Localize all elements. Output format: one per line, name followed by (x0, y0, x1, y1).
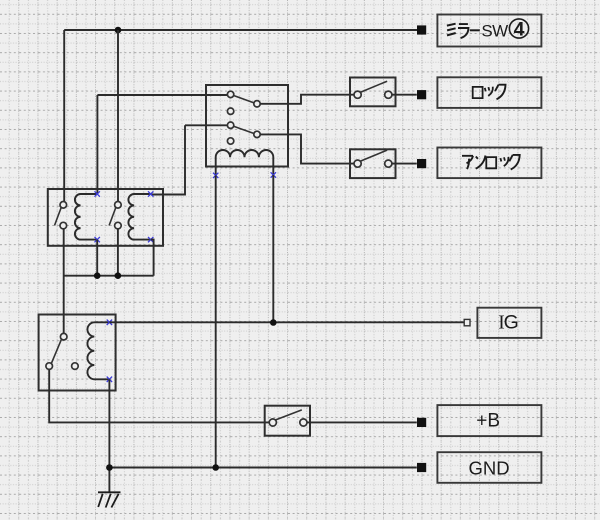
wire: SW1 to lock terminal (392, 94, 417, 96)
switch SW3 contacts and blade (269, 410, 307, 426)
wire: drop to relay K2 common (117, 30, 119, 202)
pin marker X K1 coil top (95, 191, 100, 196)
ground symbol (98, 492, 121, 507)
junction dot bottom rail right (115, 272, 122, 279)
label text: unlock (katakana a-n-ro-tsu-ku) (462, 155, 520, 170)
terminal square: lock (417, 90, 426, 99)
pin marker X U1 coil right (271, 172, 276, 177)
wire: K1 coil top to relay U1 pole1 (97, 95, 227, 194)
relay U1 pole2 contacts and blade (227, 122, 260, 144)
label box: IG (477, 308, 541, 338)
switch SW3 (+B) box (265, 406, 310, 436)
pin marker X K2 coil bottom (148, 237, 153, 242)
switch SW1 contacts and blade (354, 81, 392, 98)
terminal square: unlock (417, 159, 426, 168)
svg-text:+B: +B (476, 411, 500, 432)
svg-text:GND: GND (468, 457, 509, 478)
switch SW2 (unlock) box (350, 149, 396, 178)
wire: K4 throw down to +B line (49, 370, 269, 423)
svg-text:G: G (504, 312, 519, 334)
wire: top bus horizontal (64, 29, 417, 31)
label box: lock (437, 77, 541, 108)
label text: mirror SW4 (katakana mi-ra-dash + SW + circled 4) (447, 19, 529, 41)
pin marker X K1 coil bottom (95, 237, 100, 242)
relay K2 contacts and blade (109, 202, 121, 229)
junction dot GND at U1 coil drop (212, 464, 219, 471)
relay K4 coil (87, 322, 109, 379)
pin marker X K2 coil top (148, 191, 153, 196)
wire: K2 coil top to relay U1 pole2 (151, 125, 227, 194)
pin marker X K4 coil bottom (107, 377, 112, 382)
label text: IG (498, 312, 519, 334)
relay K1 coil (75, 194, 97, 240)
switch SW2 contacts and blade (354, 150, 392, 167)
wire: U1 coil right down to IG line (272, 175, 274, 323)
junction dot top bus (115, 27, 122, 34)
wire: K1 coil bottom drop (96, 240, 98, 276)
terminal square: GND (417, 463, 426, 472)
switch SW1 (lock) box (350, 78, 396, 107)
svg-text:4: 4 (514, 19, 525, 41)
relay U1 pole1 contacts and blade (227, 91, 260, 114)
wire: SW3 to +B terminal (307, 421, 417, 423)
junction dot IG line (270, 319, 277, 326)
wire: GND line (109, 467, 416, 469)
relay K4 contacts and blade (46, 333, 78, 369)
wire: U1 pole2 throw to unlock switch (260, 134, 354, 163)
label box: mirror SW4 (437, 15, 541, 47)
pin marker X U1 coil left (213, 173, 218, 178)
terminal square: mirror SW (417, 25, 426, 34)
terminal connector: IG (open square) (464, 319, 470, 325)
label box: +B (437, 405, 541, 436)
relay K2 coil (128, 194, 150, 240)
label text: lock (katakana ro-tsu-ku) (473, 85, 506, 100)
wire: K2 coil bottom drop (151, 240, 154, 276)
wire: K2 switch drop (117, 229, 119, 276)
relay box K1/K2 (48, 189, 163, 246)
wire: U1 pole1 throw to lock switch (260, 95, 354, 104)
relay U1 coil (216, 150, 274, 175)
relay K4 box (39, 315, 116, 391)
terminal square: +B (417, 418, 426, 427)
label box: GND (437, 452, 541, 483)
svg-text:SW: SW (481, 21, 508, 40)
junction dot bottom rail left (94, 272, 101, 279)
wire: K1 switch to bottom rail and to relay K4 (64, 229, 154, 333)
pin marker X K4 coil top (107, 320, 112, 325)
label box: unlock (437, 148, 541, 179)
wire: SW2 to unlock terminal (392, 163, 417, 165)
relay K1 contacts and blade (55, 202, 67, 229)
wire: left drop to relay K1 common (63, 30, 65, 202)
wire: K4 coil bottom down to ground (108, 379, 110, 492)
relay U1 box (206, 85, 288, 167)
wire: IG line (109, 321, 464, 323)
wire: U1 coil left down to ground rail (215, 175, 217, 467)
junction dot GND at ground drop (106, 464, 113, 471)
